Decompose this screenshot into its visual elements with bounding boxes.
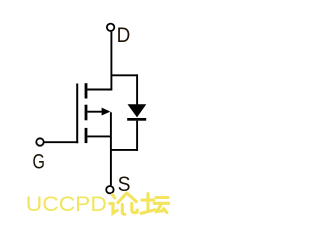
svg-text:D: D (117, 24, 131, 47)
wire gate lead (44, 141, 78, 143)
watermark char 论 (drawn strokes) (110, 193, 138, 214)
svg-text:G: G (33, 149, 45, 173)
wire diode vertical upper (136, 74, 138, 104)
drain terminal circle D (107, 24, 114, 31)
mosfet Q1 gate electrode (76, 84, 78, 144)
wire diode branch top (111, 74, 138, 76)
gate terminal circle G (36, 138, 43, 145)
source terminal circle S (106, 186, 113, 193)
diode D1 cathode bar (127, 118, 146, 121)
wire source lead (87, 135, 111, 137)
mosfet Q1 channel bar top (85, 83, 88, 98)
wire body lead (87, 111, 102, 113)
wire drain horizontal to mosfet (87, 89, 112, 91)
mosfet Q1 channel bar bottom (85, 128, 88, 143)
diode D1 body diode triangle (128, 104, 147, 117)
watermark char 坛 (drawn strokes) (141, 194, 170, 214)
wire diode vertical lower (136, 121, 138, 151)
mosfet Q1 channel bar middle (85, 105, 88, 121)
mosfet Q1 body arrow (102, 108, 111, 116)
wire source vertical (110, 112, 112, 185)
wire drain vertical (110, 32, 112, 91)
svg-text:UCCPD: UCCPD (26, 193, 107, 216)
wire diode return horizontal (111, 149, 138, 151)
